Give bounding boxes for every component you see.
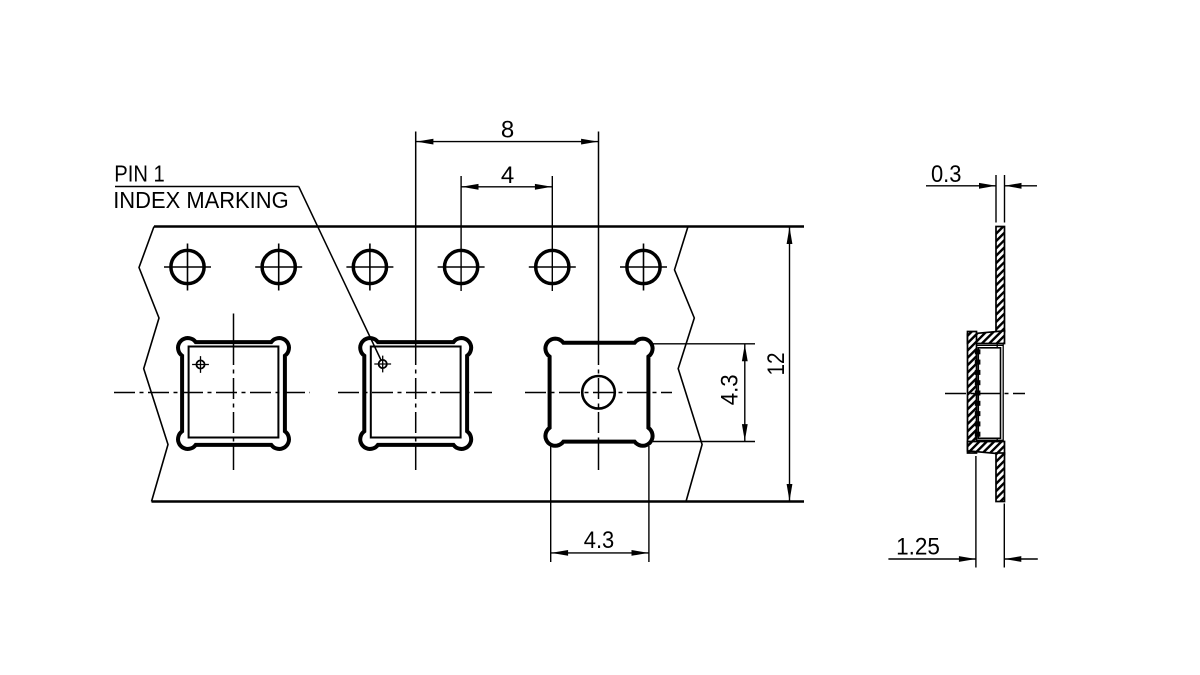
pocket 3 outline [545, 339, 652, 446]
dimension 4.3 (pocket height) line [744, 344, 746, 442]
dimension 4 line [461, 186, 552, 188]
dimension 4.3 (pocket height) top extension line [653, 343, 755, 345]
sprocket hole 6 [627, 250, 660, 283]
svg-text:1.25: 1.25 [896, 533, 940, 560]
side view: tape strip above pocket (hatched) [996, 227, 1005, 332]
pocket 2 component outline [371, 347, 461, 438]
pocket 2 pin1 index mark [379, 360, 387, 368]
svg-text:PIN 1: PIN 1 [114, 161, 165, 187]
svg-text:8: 8 [501, 117, 514, 144]
side view: pocket bottom flange (hatched) [968, 442, 1005, 455]
sprocket hole 3 [353, 250, 386, 283]
extension line hole 5 (dim 4) [551, 176, 553, 291]
pocket 1 vertical centerline [233, 314, 235, 344]
side view: pocket cavity opening lines [997, 344, 1003, 442]
svg-text:INDEX MARKING: INDEX MARKING [113, 187, 289, 213]
pocket 2 horizontal centerline [338, 392, 492, 394]
extension line hole 4 (dim 4) [460, 176, 462, 291]
dimension 1.25 line [888, 558, 1037, 560]
dimension 1.25 extension lines [976, 456, 1004, 568]
side view: horizontal centerline [945, 393, 1025, 395]
carrier tape bottom edge [152, 500, 805, 503]
sprocket hole 5 [536, 250, 569, 283]
pocket 1 pin1 index mark [196, 360, 204, 368]
svg-text:4.3: 4.3 [717, 374, 744, 405]
dimension 4.3 (pocket width) line [551, 552, 649, 554]
side view: component terminals [975, 349, 981, 354]
pocket 3 horizontal centerline [525, 392, 672, 394]
pocket 2 vertical centerline / dim 8 left extension [415, 132, 417, 344]
side view: component body [978, 348, 1000, 439]
pocket 1 component outline [189, 347, 279, 438]
pocket 1 outline [178, 338, 289, 449]
left break line (zigzag) [139, 227, 168, 502]
svg-text:12: 12 [763, 353, 790, 376]
svg-text:4.3: 4.3 [584, 527, 615, 554]
pocket 3 center hole [582, 376, 615, 409]
dimension 4.3 (pocket width) right extension line [648, 446, 650, 562]
sprocket hole 4 [445, 250, 478, 283]
dimension 0.3 line [926, 185, 1037, 187]
dimension 8 line [416, 141, 598, 143]
side view: pocket top flange (hatched) [968, 331, 1005, 344]
svg-text:4: 4 [501, 162, 514, 189]
leader line to pin1 mark [299, 187, 382, 361]
side view: tape strip below pocket (hatched) [996, 453, 1005, 502]
note underline [115, 186, 299, 188]
dimension 4.3 (pocket width) left extension line [550, 446, 552, 562]
sprocket hole 1 [171, 250, 204, 283]
right break line (zigzag) [675, 227, 703, 502]
carrier tape top edge [154, 225, 804, 228]
pocket 2 outline [360, 338, 471, 449]
dimension 4.3 (pocket height) bottom extension line [653, 441, 755, 443]
pocket 3 vertical centerline / dim 8 right extension [598, 132, 600, 344]
svg-text:0.3: 0.3 [931, 161, 962, 188]
dimension 12 line [789, 227, 791, 502]
dimension 0.3 extension lines [996, 175, 1005, 223]
side view: pocket left wall (hatched) [968, 332, 977, 454]
sprocket hole 2 [262, 250, 295, 283]
pocket 1 horizontal centerline [114, 392, 310, 394]
